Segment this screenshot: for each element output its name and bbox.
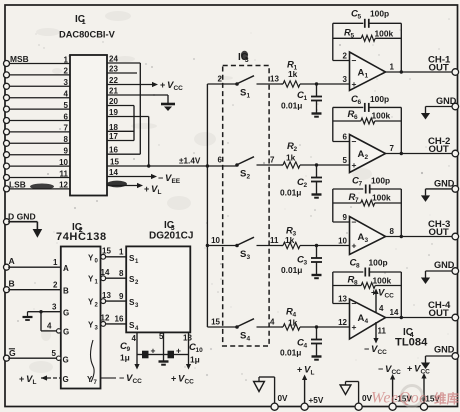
svg-text:DAC80CBI-V: DAC80CBI-V — [59, 30, 116, 40]
wire feed to S1 — [207, 83, 236, 85]
svg-text:2: 2 — [303, 182, 307, 189]
power +VL label (IC1 pin13) — [144, 184, 161, 196]
svg-text:3: 3 — [247, 254, 251, 261]
svg-text:24: 24 — [109, 55, 118, 64]
svg-text:2: 2 — [247, 174, 251, 181]
svg-text:5: 5 — [350, 33, 354, 40]
svg-text:+: + — [407, 364, 412, 374]
node LSB — [9, 179, 54, 189]
svg-text:−: − — [378, 364, 383, 374]
svg-text:2: 2 — [53, 281, 58, 290]
svg-text:15: 15 — [211, 318, 220, 327]
svg-text:G: G — [63, 356, 69, 365]
wire IC1 pin19 to +1.4V node link — [107, 117, 150, 168]
wire +VL to IC2 pin6 — [41, 375, 61, 380]
ground 0V open arrow — [254, 377, 265, 392]
ground D GND arrow — [33, 222, 43, 238]
svg-text:MSB: MSB — [10, 54, 29, 64]
wire IC2 Y7 stub — [101, 377, 117, 379]
svg-text:Y: Y — [88, 298, 94, 307]
switch S3 label — [240, 249, 251, 261]
svg-text:CC: CC — [420, 369, 430, 376]
wire IC1 data input lines (pins 1-12) — [8, 64, 70, 189]
node MSB — [10, 54, 29, 64]
capacitor C8 — [365, 268, 369, 277]
wire IC2 Y1 to IC3 S2 — [106, 277, 127, 279]
svg-text:Y: Y — [88, 320, 94, 329]
svg-text:Y: Y — [87, 375, 93, 384]
svg-text:19: 19 — [109, 108, 118, 117]
svg-text:A: A — [358, 68, 365, 79]
switch S2 output pin 7 — [270, 156, 275, 165]
IC2 pin1 labels — [53, 258, 69, 273]
svg-text:+: + — [352, 322, 357, 332]
svg-text:7: 7 — [358, 181, 362, 188]
svg-text:3: 3 — [52, 303, 57, 312]
svg-text:OUT: OUT — [429, 227, 449, 238]
wire GND ch1 — [426, 107, 453, 114]
IC2 Y7 label — [87, 375, 98, 386]
wire GND ch4 — [426, 356, 453, 363]
wire IC1 pin22 to +VCC — [107, 82, 158, 87]
svg-text:8: 8 — [354, 280, 358, 287]
svg-text:+: + — [176, 346, 181, 356]
svg-text:+: + — [144, 184, 149, 194]
switch S1 — [235, 76, 281, 86]
svg-text:4: 4 — [270, 318, 275, 327]
svg-text:GND: GND — [434, 179, 455, 189]
power +VL label (IC2 pin6) — [19, 374, 36, 386]
switch S4 label — [240, 331, 251, 343]
resistor R7 label — [349, 192, 391, 204]
svg-text:GND: GND — [436, 96, 457, 106]
svg-text:5: 5 — [159, 332, 164, 341]
node -15V terminal — [389, 395, 412, 411]
svg-text:−: − — [158, 173, 163, 183]
svg-text:A: A — [358, 232, 365, 243]
svg-text:维库: 维库 — [434, 391, 460, 406]
IC3 analog switch dashed box — [223, 66, 269, 347]
switch S4 input pin 15 — [211, 318, 220, 327]
svg-text:OUT: OUT — [429, 63, 449, 74]
svg-text:5: 5 — [64, 101, 69, 110]
capacitor C4 label — [280, 338, 307, 358]
wire A4 inverting input — [333, 272, 350, 304]
svg-text:10: 10 — [59, 158, 68, 167]
capacitor C2 — [311, 165, 322, 194]
node +1.4V label — [179, 157, 201, 166]
svg-text:−: − — [352, 137, 357, 147]
svg-text:±1.4V: ±1.4V — [179, 157, 201, 166]
capacitor C3 — [311, 246, 322, 275]
wire A to IC2 pin1 — [8, 266, 61, 268]
wire feed to S4 — [207, 326, 236, 328]
IC1 DAC80CBI-V body — [70, 55, 107, 196]
svg-text:14: 14 — [390, 308, 399, 317]
switch S1 input pin 2 — [218, 75, 223, 84]
IC3 label — [164, 220, 175, 232]
wire IC1 pin24 to pin16 link — [107, 63, 140, 154]
capacitor C9 label — [120, 341, 130, 363]
svg-text:8: 8 — [119, 269, 124, 278]
svg-text:EE: EE — [171, 178, 180, 185]
IC2 unused bracket squiggle — [91, 340, 95, 382]
IC4 pin 4 number — [379, 304, 384, 313]
wire A4 output — [386, 317, 453, 319]
wire IC2 Y3 to IC3 S4 — [106, 323, 127, 325]
svg-text:G: G — [63, 328, 69, 337]
svg-text:CC: CC — [173, 85, 183, 92]
wire G-bar to IC2 pin5 — [8, 357, 56, 359]
op-amp A3 pin numbers — [338, 213, 394, 246]
node +5V terminal — [301, 396, 324, 410]
capacitor C6 label — [351, 94, 389, 106]
wire A3 output — [386, 236, 453, 238]
wire feedback top rail ch2 — [333, 107, 403, 155]
IC1 pin numbers 1-12 — [59, 55, 68, 189]
svg-text:100p: 100p — [370, 94, 389, 104]
power -VCC label (IC4) — [364, 344, 387, 356]
node GND terminal ch3 — [434, 260, 459, 274]
switch S2 — [235, 157, 281, 167]
svg-text:OUT: OUT — [429, 144, 449, 155]
IC2 pin2 labels — [53, 281, 69, 296]
capacitor C10 label — [189, 342, 203, 365]
svg-text:100p: 100p — [371, 176, 390, 186]
svg-text:DG201CJ: DG201CJ — [149, 231, 193, 242]
svg-text:+: + — [160, 80, 165, 90]
svg-text:+: + — [352, 241, 357, 251]
svg-text:B: B — [9, 279, 15, 289]
svg-text:+: + — [19, 374, 24, 384]
power +VCC label (IC4) — [371, 288, 394, 300]
svg-text:OUT: OUT — [429, 308, 449, 319]
svg-text:B: B — [63, 287, 69, 296]
IC4 label — [403, 327, 414, 339]
IC2 output Y0 labels — [88, 247, 111, 265]
svg-text:23: 23 — [109, 65, 118, 74]
wire IC2 Y0 to IC3 S1 — [106, 256, 127, 258]
node CH-2 OUT terminal — [428, 136, 459, 157]
ground (GND terminal ch4) — [421, 363, 430, 370]
power +VL label (bottom) — [297, 365, 314, 377]
svg-text:4: 4 — [303, 343, 307, 350]
resistor R3 — [281, 242, 350, 248]
wire D GND — [8, 221, 37, 223]
svg-text:6: 6 — [343, 133, 348, 142]
wire +1.4V feed vertical — [206, 84, 209, 327]
svg-text:S: S — [240, 169, 246, 180]
svg-text:2: 2 — [343, 52, 348, 61]
IC2 pin4 labels — [47, 322, 69, 337]
svg-text:A: A — [358, 149, 365, 160]
IC2 Y2 output bubble — [101, 299, 106, 304]
ground (IC1 pin21) — [161, 104, 175, 111]
svg-text:D GND: D GND — [8, 212, 36, 222]
ground (GND terminal ch1) — [421, 113, 430, 120]
svg-text:7: 7 — [64, 124, 69, 133]
switch S1 label — [240, 88, 251, 100]
svg-text:+5V: +5V — [309, 396, 324, 405]
capacitor C9 — [137, 346, 164, 359]
svg-text:4: 4 — [365, 318, 369, 325]
svg-text:7: 7 — [270, 156, 275, 165]
node GND terminal ch4 — [434, 345, 459, 360]
svg-text:8: 8 — [64, 135, 69, 144]
IC4 pin 11 number — [378, 327, 387, 336]
ground (GND terminal ch3) — [421, 278, 430, 285]
resistor R1 label — [287, 60, 298, 80]
svg-text:100k: 100k — [372, 111, 391, 121]
power -VCC label (bottom) — [378, 364, 401, 376]
svg-text:22: 22 — [109, 76, 118, 85]
wire A2 inverting input — [333, 107, 350, 141]
IC2 Y0 output bubble — [101, 254, 106, 259]
svg-text:5: 5 — [357, 14, 361, 21]
IC3 control input S4 label — [129, 321, 139, 332]
svg-text:−: − — [119, 373, 124, 383]
node GND terminal ch2 — [434, 179, 459, 193]
IC2 74HC138 body — [61, 247, 101, 389]
wire 0V analog — [346, 382, 359, 404]
resistor R2 label — [286, 141, 297, 163]
wire IC2 pin3 enable — [28, 310, 61, 331]
IC1 value label DAC80CBI-V — [59, 30, 116, 40]
svg-text:3: 3 — [343, 75, 348, 84]
svg-text:0.01μ: 0.01μ — [281, 101, 302, 111]
resistor R5 — [333, 35, 402, 41]
svg-text:21: 21 — [109, 87, 118, 96]
svg-text:1k: 1k — [286, 153, 296, 163]
svg-text:17: 17 — [109, 132, 118, 141]
capacitor C3 label — [281, 255, 307, 276]
svg-text:100k: 100k — [372, 193, 391, 203]
wire A3 inverting input — [333, 189, 350, 222]
node A terminal — [4, 256, 15, 270]
op-amp A3 (IC4 TL084 section) — [350, 217, 386, 255]
svg-text:20: 20 — [109, 97, 118, 106]
node G-bar terminal — [4, 348, 17, 361]
IC3 control input S3 label — [129, 298, 139, 309]
svg-text:11: 11 — [270, 236, 279, 245]
ground (IC3 pin5) — [159, 362, 169, 365]
switch S4 output pin 4 — [270, 318, 275, 327]
svg-text:12: 12 — [338, 318, 347, 327]
power +VCC label (IC1 pin22) — [160, 80, 183, 92]
IC2 pin3 labels — [52, 303, 69, 318]
wire +5V to +VL — [302, 375, 307, 404]
svg-text:+: + — [371, 288, 376, 298]
svg-text:11: 11 — [60, 169, 69, 178]
svg-text:1: 1 — [82, 19, 86, 26]
svg-text:GND: GND — [434, 345, 455, 355]
ground (C3) — [312, 275, 322, 278]
svg-text:10: 10 — [338, 237, 347, 246]
capacitor C1 label — [281, 90, 307, 111]
wire GND ch2 — [426, 189, 453, 196]
switch S3 input pin 10 — [211, 236, 220, 245]
IC2 value label 74HC138 — [56, 231, 107, 243]
svg-text:+: + — [352, 160, 357, 170]
svg-text:1: 1 — [64, 55, 69, 64]
svg-text:−: − — [364, 344, 369, 354]
svg-text:1: 1 — [390, 63, 395, 72]
op-amp A2 pin numbers — [343, 133, 395, 166]
svg-text:G: G — [63, 309, 69, 318]
resistor R8 label — [348, 275, 392, 287]
IC2 output Y1 labels — [88, 268, 110, 286]
svg-text:L: L — [157, 189, 161, 196]
svg-text:16: 16 — [109, 146, 118, 155]
svg-text:7: 7 — [390, 144, 395, 153]
resistor R2 — [281, 162, 350, 168]
svg-text:+: + — [171, 374, 176, 384]
resistor R7 — [333, 200, 402, 206]
IC3 bottom pin stubs — [137, 332, 189, 360]
IC2 Y3 output bubble — [101, 322, 106, 327]
capacitor C4 — [311, 327, 322, 356]
capacitor C6 — [365, 103, 369, 112]
svg-text:GND: GND — [434, 260, 455, 270]
wire IC3 pin4 to -VCC — [134, 355, 139, 370]
wire feedback top rail ch4 — [333, 272, 403, 319]
svg-text:8: 8 — [390, 227, 395, 236]
wire IC2 Y2 to IC3 S3 — [106, 300, 127, 302]
svg-text:−: − — [352, 56, 357, 66]
svg-text:TL084: TL084 — [395, 337, 428, 349]
svg-text:18: 18 — [109, 123, 118, 132]
svg-text:A: A — [9, 256, 15, 266]
IC2 pin5 labels — [52, 349, 69, 365]
svg-text:CC: CC — [184, 379, 194, 386]
IC3 DG201CJ body — [126, 246, 190, 332]
svg-text:+: + — [297, 365, 302, 375]
IC2 output Y3 labels — [88, 314, 110, 332]
svg-text:1k: 1k — [288, 69, 298, 79]
op-amp A4 pin numbers — [338, 295, 399, 328]
wire IC1 pin23 stub — [107, 72, 137, 74]
op-amp A2 (IC4 TL084 section) — [350, 135, 386, 173]
wire IC1 pin20 to pin17 link — [107, 106, 134, 141]
wire feedback top rail ch3 — [333, 189, 403, 238]
svg-text:8: 8 — [356, 263, 360, 270]
wire IC3 pin13 to +VCC — [186, 355, 191, 370]
IC3 bottom pin numbers — [132, 332, 193, 343]
capacitor C5 label — [351, 9, 389, 21]
svg-text:1: 1 — [53, 258, 58, 267]
svg-text:16: 16 — [115, 315, 124, 324]
IC3 control input S1 label — [129, 254, 139, 265]
wire +1.4V output row (IC1 pin15) — [107, 165, 237, 167]
wire A1 inverting input — [333, 23, 350, 60]
wire IC1 pin14 to -VEE — [107, 174, 157, 179]
IC3 control input S2 label — [129, 275, 139, 286]
ground (IC2 pin3 enable) — [23, 312, 33, 320]
switch S1 output pin 13 — [270, 75, 279, 84]
capacitor C2 label — [280, 177, 307, 198]
svg-text:5: 5 — [52, 349, 57, 358]
svg-text:G: G — [63, 375, 69, 384]
IC3 switch pin number 8 — [119, 269, 124, 278]
wire feed to S3 — [207, 245, 236, 247]
IC3 switch-block label — [238, 51, 249, 64]
wire IC1 pin21 to ground — [107, 95, 168, 103]
op-amp A1 (IC4 TL084 section) — [350, 52, 386, 91]
svg-text:+: + — [352, 79, 357, 89]
resistor R6 label — [348, 109, 391, 121]
wire B to IC2 pin2 — [8, 289, 61, 291]
node GND terminal ch1 — [436, 96, 459, 110]
power -VEE label — [158, 173, 181, 185]
svg-text:2: 2 — [64, 67, 69, 76]
svg-text:Y: Y — [88, 253, 94, 262]
switch S3 — [235, 237, 281, 247]
watermark — [371, 386, 460, 407]
node 0V digital terminal — [271, 394, 288, 410]
ground (C2) — [312, 195, 322, 198]
node D GND terminal — [4, 212, 36, 225]
IC3 switch pin number 16 — [115, 315, 124, 324]
svg-text:14: 14 — [109, 168, 118, 177]
svg-text:11: 11 — [378, 327, 387, 336]
resistor R5 label — [344, 28, 393, 40]
resistor R6 — [333, 118, 402, 124]
svg-text:74HC138: 74HC138 — [56, 231, 107, 243]
resistor R1 — [281, 81, 350, 87]
capacitor C1 — [311, 84, 322, 113]
switch S2 input pin 6 — [218, 156, 223, 165]
op-amp A4 (IC4 TL084 section) — [350, 299, 386, 339]
svg-text:1: 1 — [247, 93, 251, 100]
power -VCC label (IC3) — [119, 373, 142, 385]
ground (GND terminal ch2) — [421, 195, 430, 202]
wire -15V to -VCC — [390, 374, 395, 403]
svg-text:100k: 100k — [373, 276, 392, 286]
resistor R4 label — [286, 307, 298, 328]
svg-text:100p: 100p — [369, 258, 388, 268]
svg-text:10: 10 — [195, 347, 203, 354]
svg-text:9: 9 — [119, 292, 124, 301]
svg-text:13: 13 — [338, 295, 347, 304]
svg-text:5: 5 — [343, 156, 348, 165]
switch S2 label — [240, 169, 251, 181]
svg-text:3: 3 — [365, 237, 369, 244]
wire +15V to +VCC — [421, 373, 426, 403]
svg-text:3: 3 — [303, 260, 307, 267]
svg-text:LSB: LSB — [9, 179, 26, 189]
svg-text:6: 6 — [218, 156, 223, 165]
svg-text:100p: 100p — [370, 9, 389, 19]
svg-text:0.01μ: 0.01μ — [280, 188, 301, 198]
svg-text:+: + — [151, 346, 156, 356]
ground (C4) — [312, 357, 322, 360]
op-amp A1 pin numbers — [343, 52, 395, 84]
wire GND ch3 — [426, 271, 453, 278]
wire 0V digital — [259, 377, 275, 403]
svg-text:9: 9 — [64, 147, 69, 156]
IC2 label — [72, 222, 83, 234]
node CH-1 OUT terminal — [428, 55, 459, 76]
svg-text:0V: 0V — [278, 394, 289, 403]
svg-text:4: 4 — [64, 90, 69, 99]
power +VCC label (IC3) — [171, 374, 194, 386]
IC4 value label TL084 — [395, 337, 428, 349]
svg-text:S: S — [240, 88, 246, 99]
svg-text:6: 6 — [357, 99, 361, 106]
wire A2 output — [386, 153, 453, 155]
wire feedback top rail ch1 — [333, 23, 403, 73]
svg-text:−: − — [352, 217, 357, 227]
